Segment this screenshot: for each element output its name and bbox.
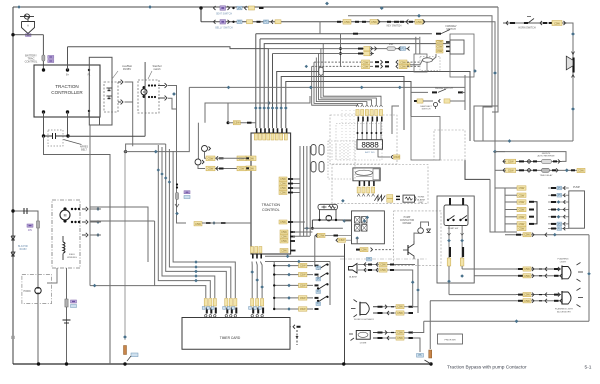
connector - pot yellow row1 right <box>237 156 246 161</box>
dashed enclosure pedal <box>420 56 440 70</box>
wire - dome feed right <box>413 321 424 332</box>
row C y48.6 <box>339 47 342 50</box>
row D y53.5 <box>339 52 342 55</box>
traction control bottom left pins <box>251 247 254 254</box>
svg-text:TIMER CARD: TIMER CARD <box>220 336 241 340</box>
terminal - controller top 3 <box>88 69 90 71</box>
dashed enclosure - instrument cluster <box>330 115 397 164</box>
node - cap junction right <box>66 134 69 137</box>
svg-text:4649576: 4649576 <box>542 153 551 155</box>
relay coil circle right <box>418 228 424 234</box>
dome rows <box>378 332 383 334</box>
connector - OW yellow <box>403 63 410 67</box>
pump box pins <box>566 187 569 189</box>
wire - controller bottom bus <box>43 112 45 136</box>
svg-text:C5W: C5W <box>437 40 443 44</box>
svg-text:C5W: C5W <box>361 248 367 252</box>
work light lamp <box>359 302 361 316</box>
wire - second top line <box>348 16 492 141</box>
connector arrows motor <box>165 83 167 88</box>
node - dist box dot <box>124 150 127 153</box>
coil driver box <box>403 195 415 202</box>
drive motor M2 armature <box>60 210 70 220</box>
node - rail dot mid <box>342 362 345 365</box>
wire - vertical x320 <box>319 22 321 34</box>
wire - branch y207 <box>90 207 148 262</box>
svg-text:C5W: C5W <box>208 157 214 161</box>
pump switch inner box <box>444 205 468 226</box>
wire - lamp2 row1 <box>449 294 516 296</box>
wire - top branch junction <box>199 6 202 9</box>
contactor bridge box <box>352 211 385 244</box>
dome light rays <box>351 338 355 341</box>
svg-text:C5W: C5W <box>280 177 286 181</box>
svg-text:C5W: C5W <box>248 157 254 161</box>
relay K1 box <box>450 40 464 54</box>
svg-text:C5W: C5W <box>371 20 377 24</box>
node - horn diamonds <box>571 32 575 36</box>
wire - cap bus to x145 vertical <box>68 135 145 137</box>
svg-text:C5W: C5W <box>524 274 530 278</box>
connector - yellow C5W <box>233 121 240 125</box>
motor brush contacts <box>148 84 150 86</box>
wire - fan line <box>158 145 210 298</box>
dashed enclosure - alarm row <box>332 165 428 204</box>
note box bottom <box>438 334 463 344</box>
seat switch row A <box>214 6 216 10</box>
wire - top border rail <box>13 6 498 8</box>
wire - pot riser <box>197 123 199 159</box>
node - bottom rail end dot <box>429 362 432 365</box>
lamp1 rays <box>577 263 581 266</box>
horn switch row <box>506 21 508 25</box>
wire - mid vertical to rail <box>344 244 346 364</box>
traction control right lower pins <box>280 230 288 234</box>
ladder row 2 <box>274 274 313 276</box>
svg-text:C5W: C5W <box>508 160 514 164</box>
svg-text:C5W: C5W <box>519 215 525 219</box>
wire - feeder verticals right <box>489 179 491 232</box>
dotted verticals in enclosure <box>341 110 343 160</box>
svg-text:C5W: C5W <box>300 307 306 311</box>
timer right diode chain <box>296 330 298 345</box>
row - C5W into bridge <box>316 235 352 237</box>
wire - row at y33.7 <box>256 33 432 35</box>
dash - sawtooth <box>396 196 400 197</box>
node - bundle diamonds upper <box>157 168 160 171</box>
brake row 2 <box>414 100 418 102</box>
wire - row1 drop to ladder <box>314 236 316 266</box>
svg-text:36/48V: 36/48V <box>123 67 131 71</box>
terminal - controller top 1 <box>42 68 45 71</box>
svg-text:FLASHING LIGHT: FLASHING LIGHT <box>555 308 574 311</box>
svg-text:C5W: C5W <box>281 230 287 234</box>
wire - bridge down <box>356 238 358 244</box>
svg-text:BATT IND: BATT IND <box>365 151 375 154</box>
node - diamond top line <box>148 5 152 9</box>
svg-text:36/48V: 36/48V <box>19 248 27 251</box>
black dash diamond rows <box>548 187 566 189</box>
lamp2 row baselines <box>516 294 561 296</box>
node - diamond top left <box>17 5 21 9</box>
TC lower rows to relay area <box>293 231 312 233</box>
timer right edge components <box>293 325 295 329</box>
wire - TC left input row <box>205 103 228 123</box>
wire - vertical x340 drop <box>340 34 342 67</box>
svg-text:SEAT BELT: SEAT BELT <box>420 105 432 108</box>
pump contactor coil PC <box>326 215 332 221</box>
key switch funnel body <box>22 22 35 34</box>
wire - row B to right rail <box>425 22 495 188</box>
wire - controller pin3 loop <box>89 57 112 125</box>
wire - feeder to yellow column <box>490 179 495 232</box>
wire - key switch to controller <box>13 34 28 36</box>
svg-text:A: A <box>27 24 29 28</box>
svg-text:C5W: C5W <box>519 186 525 190</box>
auto reverse row 1 <box>503 160 562 162</box>
svg-text:C5W: C5W <box>280 186 286 190</box>
wire - column feeders <box>495 188 517 232</box>
svg-text:DOME: DOME <box>360 343 367 345</box>
svg-text:C5W: C5W <box>195 222 201 226</box>
capacitor C1 dashed box <box>48 130 63 146</box>
wire - bus line 8 to brake box <box>286 82 411 129</box>
wire - chains down <box>448 266 450 295</box>
transistor Q1 <box>407 245 409 255</box>
node - dot on rail x38.5 <box>37 362 40 365</box>
flashing light 1 <box>561 266 563 280</box>
connector - right column pin 6 <box>517 222 526 226</box>
dashed enclosure - driver module <box>394 211 441 266</box>
relay enclosure box <box>450 34 474 77</box>
wire - fan line <box>169 149 230 298</box>
connector - right column pin 3 <box>517 200 526 204</box>
ellipse component <box>423 58 433 62</box>
pull-up outer box <box>437 196 474 283</box>
solid box below brake <box>411 117 440 161</box>
row - C08 into bridge <box>336 238 338 242</box>
wire - coil left leg <box>311 220 313 228</box>
svg-text:C5W: C5W <box>339 238 345 242</box>
svg-text:C5W: C5W <box>280 220 286 224</box>
wire - TC right bus verticals <box>299 146 301 236</box>
resistor R5 orange at rail end <box>429 350 432 358</box>
svg-text:C5W: C5W <box>554 21 560 25</box>
wire - cap down and right <box>44 136 111 364</box>
wire - bus line 2 <box>259 39 261 128</box>
svg-text:C5W: C5W <box>300 273 306 277</box>
rows right of timer top <box>265 255 344 257</box>
svg-text:C5W: C5W <box>519 200 525 204</box>
node - input dot <box>227 121 230 124</box>
label - blue CA <box>417 354 424 358</box>
node - feeder diamonds <box>411 280 415 284</box>
dash group right column <box>529 201 534 203</box>
wire - row y228 <box>304 227 343 229</box>
wire - pot to TC <box>198 165 205 169</box>
svg-text:C5W: C5W <box>394 155 400 159</box>
key switch terminal block <box>26 34 32 37</box>
resistor R4 orange <box>124 346 127 355</box>
connector - horn yellow <box>552 21 562 26</box>
wire - TC bottom pins to timer group3 <box>251 262 253 299</box>
svg-text:C5W: C5W <box>248 167 254 171</box>
svg-text:FLASHING: FLASHING <box>558 258 569 261</box>
capacitor C2 on branch <box>23 208 25 214</box>
svg-text:BELT: BELT <box>81 149 87 152</box>
wire - alarm out <box>394 264 415 266</box>
svg-text:C5W: C5W <box>234 121 240 125</box>
svg-text:CONTROLLER: CONTROLLER <box>51 90 83 95</box>
inner box top pins <box>449 198 451 205</box>
diode D2 on left rail <box>11 252 15 256</box>
label - fuse purple <box>48 56 54 59</box>
svg-text:PRIOR MH: PRIOR MH <box>445 340 456 342</box>
terminal - controller top 2 <box>66 68 69 71</box>
wire - left border rail B+ <box>12 7 14 364</box>
suppression loop - diode and resistor <box>318 204 337 209</box>
wire - ladder collector <box>329 262 331 306</box>
svg-text:PUMP SW: PUMP SW <box>448 228 459 230</box>
svg-text:WINDING: WINDING <box>67 257 77 259</box>
drive motor M2 dash-dot box <box>52 200 80 268</box>
switch contacts inside <box>447 219 449 221</box>
wire - bus line 4 from controller pin2 <box>68 47 269 128</box>
svg-text:C5W: C5W <box>437 44 443 48</box>
svg-text:C5W: C5W <box>416 20 422 24</box>
wire - loop drops <box>319 210 321 220</box>
svg-text:M: M <box>64 214 67 218</box>
wire - branch y221 <box>90 220 155 222</box>
connector - sawtooth yellows <box>387 195 393 199</box>
node - dot on rail x125 <box>123 362 126 365</box>
hour meter box <box>353 168 380 181</box>
traction control left pins <box>246 156 256 161</box>
marker on left rail <box>11 336 14 339</box>
wire - ellipse link <box>410 60 423 65</box>
label - blue tag <box>131 353 138 357</box>
node - diamond x125 <box>123 335 127 339</box>
dash-dot enclosure bottom y259 <box>340 258 428 260</box>
dash - pot row 1 <box>219 157 224 159</box>
node - fan diamonds <box>194 260 198 264</box>
ladder switch levers <box>318 264 328 270</box>
svg-text:CONTACTOR: CONTACTOR <box>400 219 415 222</box>
wire - bdi right stub <box>392 106 399 134</box>
connector - pot yellow 2 <box>206 166 215 171</box>
horn H1 <box>35 287 41 293</box>
svg-text:SEAT SWITCH: SEAT SWITCH <box>216 13 232 16</box>
node - diamond second line mid <box>380 6 384 10</box>
traction controller U1 <box>34 65 100 117</box>
traction control right pin P60 <box>279 220 287 224</box>
node - diamond mid <box>154 150 158 154</box>
node - diamond on second line <box>417 14 421 18</box>
horn H2 symbol <box>572 58 574 73</box>
relay K1 pins <box>436 40 443 44</box>
terminal - controller bottom 2 <box>66 110 69 113</box>
svg-text:switch: switch <box>153 67 161 71</box>
auto reverse row 2 - time delay <box>503 169 585 171</box>
wire - dashed area to yellow col feeder <box>465 160 490 179</box>
battery cell symbols <box>107 87 112 89</box>
svg-text:C5W: C5W <box>280 190 286 194</box>
node - diamond at relay right <box>473 69 477 73</box>
node - diamond left input <box>267 101 271 105</box>
bridge diode squares <box>355 217 361 224</box>
wire - chain riser x66.5 <box>66 268 68 364</box>
node - bridge diamonds <box>365 216 369 220</box>
wire - motor box tail <box>47 268 57 283</box>
svg-text:FIELD: FIELD <box>69 254 76 256</box>
resistor R2 gray <box>37 221 40 228</box>
wire - x145 vertical through motor <box>144 62 146 136</box>
wire - vertical x125 with resistor <box>124 150 126 340</box>
connector - right column pin 7 <box>517 226 526 230</box>
accelerator potentiometer circles <box>202 146 208 152</box>
wire - right rail verticals <box>492 7 498 112</box>
svg-text:CONTROL: CONTROL <box>262 208 280 212</box>
motor M1 armature <box>141 89 147 95</box>
node - diamond top <box>325 2 329 6</box>
chain 2 <box>461 226 463 267</box>
svg-text:HORN: HORN <box>418 197 425 199</box>
ladder row 3 <box>274 284 313 286</box>
wire - bus line 1 <box>255 34 257 128</box>
svg-text:C5W: C5W <box>524 293 530 297</box>
traction control bottom pin A08 <box>280 249 288 253</box>
wire - bus line 6 to right <box>277 72 470 142</box>
wire - right feed drop <box>474 7 498 141</box>
wire - loopback bracket <box>534 202 537 224</box>
svg-text:BRAKE SWITCH: BRAKE SWITCH <box>435 87 453 90</box>
ladder blue labels <box>316 266 321 270</box>
svg-text:TRACTION: TRACTION <box>262 203 281 207</box>
svg-text:ALARM: ALARM <box>417 198 425 201</box>
svg-text:WORK LIGHT ASSY: WORK LIGHT ASSY <box>354 318 375 321</box>
brake row 1 <box>411 91 428 93</box>
svg-text:C5W: C5W <box>344 20 350 24</box>
wire bus - BDI feed nest <box>312 66 358 105</box>
wire - right bottom feed <box>474 140 573 142</box>
wire - pot row 2 <box>206 168 246 170</box>
svg-text:C5W: C5W <box>519 222 525 226</box>
dashed box - direction pedal <box>328 141 355 179</box>
switch lever from cap <box>64 140 82 145</box>
wire - aux batt to x132.7 <box>125 82 133 146</box>
wire - horn drop <box>567 23 573 141</box>
svg-text:C5W: C5W <box>300 296 306 300</box>
lamp2 connectors <box>518 294 523 296</box>
svg-text:BELLY SWITCH: BELLY SWITCH <box>215 26 233 29</box>
svg-text:Traction Bypass with pump Cont: Traction Bypass with pump Contactor <box>447 365 527 371</box>
svg-text:C5W: C5W <box>397 311 403 315</box>
svg-text:C5W: C5W <box>524 299 530 303</box>
key unit box <box>414 54 427 72</box>
svg-text:C5W: C5W <box>397 305 403 309</box>
node - diamond right of motor <box>172 92 176 96</box>
wire - diagonal into rail end <box>425 360 432 364</box>
wire - motor to fuse riser <box>168 86 177 179</box>
wire - bottom ground rail <box>13 363 431 365</box>
key switch SW1 <box>24 14 29 19</box>
wire - transistor links <box>414 233 421 241</box>
work light rays <box>354 300 358 303</box>
dash - row3 left <box>353 33 358 35</box>
wire - bus line 5 row D <box>272 54 274 129</box>
svg-text:ACCESSORY: ACCESSORY <box>557 310 571 313</box>
terminal - controller bottom 1 <box>42 110 45 113</box>
connector stadium shells <box>311 145 316 156</box>
wire - drive motor feeds <box>90 208 101 210</box>
node - diamond alarm row <box>341 199 345 203</box>
connector - right column pin 5 <box>517 215 526 219</box>
node - dot on rail x66.5 <box>65 362 68 365</box>
svg-text:8888: 8888 <box>361 142 379 151</box>
connector - pot yellow 1 <box>206 156 215 161</box>
pump motor M1 dashed box <box>138 80 159 113</box>
wire - fan line <box>162 147 215 298</box>
pump control box right <box>569 191 585 228</box>
wire - lamp2 row2 <box>430 300 516 302</box>
wire - long line y87 from riser <box>189 86 465 88</box>
traction control U2 <box>251 133 291 254</box>
wire - x90 drop <box>89 125 91 286</box>
svg-text:C5W: C5W <box>281 248 287 252</box>
lamp2 rays <box>577 288 581 291</box>
svg-text:C5W: C5W <box>363 60 369 64</box>
lamp1 connectors <box>518 268 523 270</box>
wire - riser to rail end <box>429 301 431 349</box>
wire - brake vertical right <box>464 75 466 110</box>
svg-text:LIGHT: LIGHT <box>560 261 567 263</box>
ladder row 1 <box>274 265 313 267</box>
terminal - controller bottom 3 <box>88 110 90 112</box>
svg-text:C5W: C5W <box>400 65 406 69</box>
wire - dist to right riser <box>125 87 189 151</box>
wire - coil row <box>312 219 351 221</box>
wire - third bottom pin drop <box>89 113 100 126</box>
traction control right mid pins <box>279 177 287 181</box>
diode D1 on left rail <box>11 236 15 240</box>
node - diamonds right rail <box>493 71 497 75</box>
connector arrows battery <box>121 80 123 85</box>
wire - bus line 7 to x404 drop <box>281 77 404 131</box>
node - group3 diamonds <box>250 270 254 274</box>
resistor R3 gray with purple label <box>65 299 68 307</box>
svg-text:C5W: C5W <box>208 167 214 171</box>
dashed rows E F <box>314 61 361 63</box>
svg-text:C5W: C5W <box>380 268 386 272</box>
svg-text:AUTO REVERSE: AUTO REVERSE <box>537 155 555 158</box>
svg-text:C5W: C5W <box>318 233 324 237</box>
svg-text:C5W: C5W <box>508 168 514 172</box>
fuse F1 control <box>42 55 45 61</box>
sawtooth signal symbol <box>374 195 385 201</box>
wire - bridge left <box>344 220 351 222</box>
node - cap junction left <box>42 134 45 137</box>
svg-text:C5W: C5W <box>524 267 530 271</box>
alarm row baselines <box>358 264 394 266</box>
svg-text:C5W: C5W <box>578 169 584 173</box>
wire - fan line <box>166 144 227 298</box>
node - horn branch dot <box>11 209 14 212</box>
connector - right column pin 4 <box>517 207 526 211</box>
fuse F2 chain <box>177 178 187 223</box>
battery discharge indicator display <box>357 140 383 150</box>
row - lamp feed y234.7 <box>505 234 589 236</box>
capsule connector on BDI feed <box>319 67 323 75</box>
